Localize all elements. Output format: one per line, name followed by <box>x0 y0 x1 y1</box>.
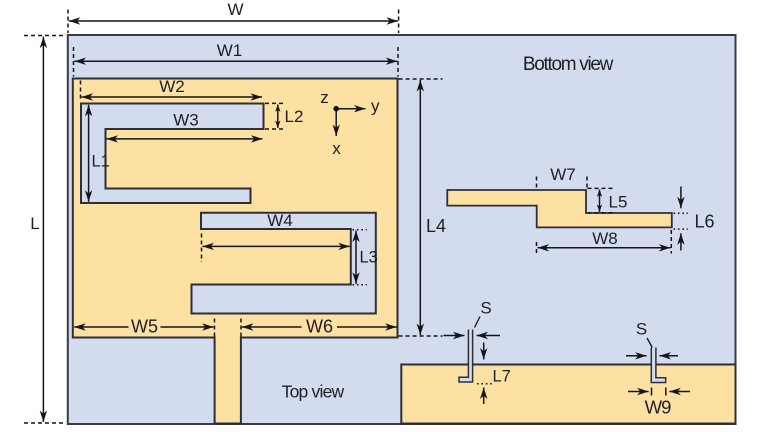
svg-text:W5: W5 <box>131 317 158 337</box>
svg-text:z: z <box>320 88 329 107</box>
svg-text:L7: L7 <box>493 368 511 386</box>
svg-text:L: L <box>30 214 39 233</box>
svg-text:L5: L5 <box>609 193 628 212</box>
svg-text:W4: W4 <box>267 211 293 230</box>
svg-text:Bottom view: Bottom view <box>523 54 614 75</box>
svg-text:L6: L6 <box>695 212 715 232</box>
svg-text:L1: L1 <box>92 153 110 171</box>
svg-text:W6: W6 <box>306 317 333 337</box>
svg-text:W: W <box>227 0 243 19</box>
svg-text:W7: W7 <box>550 165 576 184</box>
svg-text:W9: W9 <box>645 397 671 418</box>
svg-text:S: S <box>480 299 491 318</box>
svg-text:W1: W1 <box>217 41 243 60</box>
svg-text:L3: L3 <box>360 249 378 267</box>
svg-text:W3: W3 <box>173 111 199 130</box>
svg-text:y: y <box>371 97 380 116</box>
svg-text:W2: W2 <box>159 77 185 96</box>
svg-text:S: S <box>636 320 647 339</box>
svg-text:Top view: Top view <box>282 382 345 402</box>
svg-text:W8: W8 <box>592 229 618 248</box>
svg-text:L4: L4 <box>426 216 446 236</box>
svg-text:L2: L2 <box>285 107 304 126</box>
svg-text:x: x <box>332 139 341 158</box>
